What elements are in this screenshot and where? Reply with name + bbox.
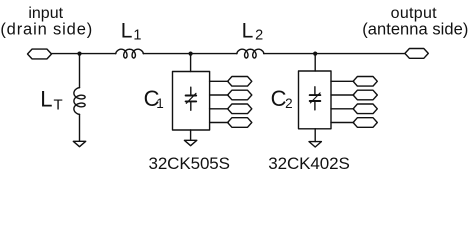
svg-text:C1: C1: [144, 86, 164, 111]
C1 pin stub 2: [210, 94, 229, 96]
C1 pad 2: [228, 90, 252, 100]
svg-text:LT: LT: [40, 86, 62, 113]
C1 pin stub 1: [210, 80, 229, 82]
C2 pad 4: [353, 118, 377, 128]
inductor LT: [74, 88, 85, 115]
wire: node B down to C1: [190, 54, 192, 72]
ground (below C2): [309, 142, 321, 147]
C2 pin stub 3: [331, 108, 354, 110]
node A (junction dot): [77, 52, 81, 56]
svg-text:L2: L2: [242, 19, 264, 43]
wire: C1 to ground: [190, 130, 192, 140]
C1 pad 4: [228, 118, 252, 128]
C1 pad 3: [228, 104, 252, 114]
wire: L2 to output pad: [264, 53, 405, 55]
trimmer symbol inside C1: [186, 87, 197, 110]
C1 pad 1: [228, 77, 252, 87]
wire: C2 to ground: [314, 129, 316, 142]
trimmer capacitor C2 (body outline): [299, 71, 332, 129]
C1 pin stub 3: [210, 108, 229, 110]
wire: node C down to C2: [314, 54, 316, 71]
svg-text:input: input: [28, 5, 63, 22]
ground (below LT): [73, 141, 85, 146]
svg-text:32CK402S: 32CK402S: [268, 154, 349, 173]
svg-text:(drain side): (drain side): [0, 21, 93, 39]
wire: input pad to L1: [52, 53, 116, 55]
wire: LT to ground: [79, 114, 81, 141]
C2 pad 3: [353, 104, 377, 114]
svg-text:L1: L1: [121, 19, 142, 43]
node B (junction dot): [189, 52, 193, 56]
svg-text:(antenna side): (antenna side): [362, 21, 468, 39]
wire: L1 to L2: [143, 53, 237, 55]
ground (below C1): [184, 140, 196, 145]
trimmer symbol inside C2: [310, 87, 321, 110]
output pad: [405, 49, 428, 59]
svg-text:output: output: [391, 5, 438, 22]
inductor L2: [237, 49, 264, 58]
svg-text:C2: C2: [271, 86, 293, 111]
C1 pin stub 4: [210, 122, 229, 124]
svg-text:32CK505S: 32CK505S: [148, 154, 229, 173]
C2 pad 1: [353, 77, 377, 87]
input pad: [28, 49, 52, 59]
C2 pad 2: [353, 90, 377, 100]
C2 pin stub 4: [331, 122, 354, 124]
wire: node A down to LT: [79, 54, 81, 88]
inductor L1: [116, 49, 144, 58]
node C (junction dot): [313, 52, 317, 56]
trimmer capacitor C1 (body outline): [173, 72, 210, 131]
C2 pin stub 1: [331, 80, 354, 82]
C2 pin stub 2: [331, 94, 354, 96]
